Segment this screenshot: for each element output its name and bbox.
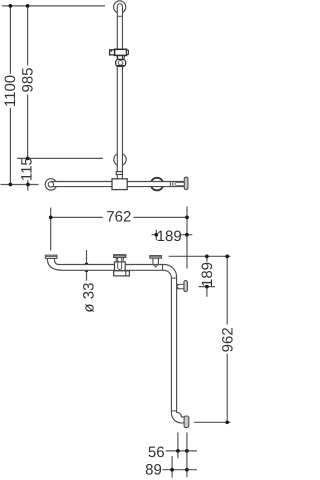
dimension dots elevation [9, 4, 30, 186]
shower rod [117, 4, 122, 179]
holder cup [116, 59, 126, 66]
slider clamp plan [115, 262, 126, 271]
vertical bar joint tick plan [171, 410, 176, 412]
corner joint tick plan [162, 265, 164, 271]
svg-text:962: 962 [219, 327, 236, 352]
slider inner fork plan [118, 257, 122, 269]
dimension 89 line [163, 469, 198, 471]
dimension 115 label [18, 157, 35, 181]
dimension 985 label [19, 67, 36, 92]
left flange plate plan [45, 255, 57, 258]
holder cup inner circle [118, 60, 123, 65]
side support plate plan [184, 281, 188, 292]
svg-text:89: 89 [145, 461, 162, 478]
dimension 762 label [106, 208, 131, 225]
diameter 33 leader line [86, 250, 88, 281]
support bracket notch [153, 264, 159, 267]
glide ring on rod [114, 153, 126, 165]
svg-text:189: 189 [199, 262, 216, 287]
dimension 56 line [166, 450, 198, 452]
slider mount plate plan [114, 255, 126, 258]
slider block [115, 49, 127, 55]
left flange inner ring [48, 182, 53, 187]
rod joint tick [117, 15, 122, 17]
top ring of shower rod [114, 1, 126, 13]
dimension 89 label [145, 461, 162, 478]
dimension 115 line [27, 180, 29, 191]
svg-text:56: 56 [148, 444, 165, 461]
svg-text:1100: 1100 [2, 75, 19, 107]
svg-text:115: 115 [18, 157, 35, 181]
extension line wall bottom [186, 432, 188, 477]
svg-text:ø 33: ø 33 [80, 283, 97, 313]
wall extension line right [169, 255, 231, 257]
dimension 762 line [51, 216, 187, 218]
dimension 1100 line [9, 6, 11, 185]
L-rail outline plan [47, 258, 184, 423]
slider knob pin [111, 50, 113, 52]
svg-text:762: 762 [106, 208, 131, 225]
slider left knob [110, 50, 116, 55]
rod-bar clamp block [112, 179, 127, 190]
side support chevron plan [176, 284, 178, 288]
dimension 189 top line [152, 234, 193, 236]
dimension 189 top label [157, 228, 182, 245]
dimension 56 label [148, 444, 165, 461]
extension tick 189 right bottom [199, 286, 216, 288]
telescope inner tube [175, 183, 184, 186]
extension line 962 bottom [194, 421, 231, 423]
extension line ring level [17, 157, 103, 159]
slider right tab [127, 50, 129, 54]
extension line 762 right / wall [186, 207, 188, 269]
rod collar [116, 172, 122, 175]
extension line 762 left [50, 208, 52, 251]
vertical bar joint tick top plan [171, 277, 176, 279]
slider bottom block plan [114, 271, 130, 276]
extension line top (rod top level) [2, 5, 105, 7]
dimension 189 right line [206, 256, 208, 296]
extension line bar near edge [177, 432, 179, 458]
holder cup band [116, 65, 125, 67]
dimension 189 right label [199, 262, 216, 287]
diameter 33 label [80, 283, 97, 313]
svg-text:189: 189 [157, 228, 182, 245]
horizontal bar [51, 182, 184, 187]
extension line bar centerline [1, 184, 39, 186]
side support stem plan [177, 284, 184, 288]
dimension 962 label [219, 327, 236, 352]
svg-text:985: 985 [19, 67, 36, 92]
dimension 1100 label [2, 75, 19, 107]
slider mount stem plan [116, 257, 123, 262]
support bracket plate plan [150, 256, 162, 259]
dimension 962 line [226, 256, 228, 422]
dimension 985 line [27, 6, 29, 159]
bar support ring [151, 178, 164, 191]
bottom wall flange plate plan [184, 416, 189, 428]
holder fork [117, 55, 124, 59]
extension tick 189 top [155, 230, 157, 241]
extension line bar far edge [171, 456, 173, 478]
bar joint ticks [170, 182, 173, 187]
left flange outer ring [45, 179, 57, 191]
right wall flange plate [184, 177, 188, 189]
dimension dots plan [49, 216, 229, 472]
support bracket stem plan [153, 258, 159, 264]
